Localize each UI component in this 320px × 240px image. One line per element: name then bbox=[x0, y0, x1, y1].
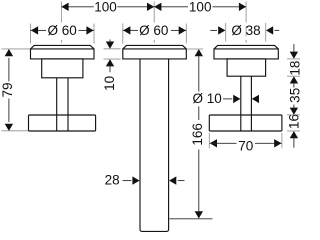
left escutcheon bbox=[31, 45, 95, 59]
dimension 10 ticks (middle escutcheon height) bbox=[104, 49, 121, 59]
left handle bar bbox=[29, 115, 96, 131]
left handle skirt bbox=[42, 59, 83, 78]
dimension 16 bbox=[287, 114, 302, 148]
dimension Ø60 left extension lines bbox=[31, 24, 95, 44]
dimension 166 top tick bbox=[187, 48, 203, 50]
dimension 166 bottom reference line bbox=[169, 218, 212, 220]
svg-text:10: 10 bbox=[102, 76, 117, 91]
right escutcheon bbox=[214, 45, 278, 59]
dimension Ø60 middle bbox=[123, 23, 187, 38]
svg-text:166: 166 bbox=[190, 123, 205, 146]
svg-text:35: 35 bbox=[287, 88, 300, 103]
dimension 166 bbox=[190, 49, 205, 218]
dimension 79 bbox=[0, 49, 15, 131]
dimension 28 bbox=[105, 173, 185, 188]
svg-text:16: 16 bbox=[287, 114, 301, 129]
dimension Ø60 left bbox=[31, 23, 95, 38]
dimension 10 arrows and label bbox=[102, 40, 117, 91]
svg-text:Ø 38: Ø 38 bbox=[231, 23, 260, 38]
dimension Ø38 bbox=[210, 23, 279, 38]
dimension 35 bbox=[287, 88, 302, 115]
dimension Ø60 middle extension lines bbox=[123, 24, 187, 44]
svg-text:18: 18 bbox=[287, 61, 300, 76]
svg-text:Ø 10: Ø 10 bbox=[193, 91, 222, 106]
centerline middle spout bbox=[153, 2, 155, 23]
right handle bar bbox=[209, 115, 282, 131]
svg-text:Ø 60: Ø 60 bbox=[48, 23, 77, 38]
right handle skirt bbox=[227, 59, 266, 76]
svg-text:100: 100 bbox=[94, 0, 117, 15]
right handle stem bbox=[241, 76, 252, 131]
dimension 70 bbox=[210, 139, 282, 154]
dimension Ø38 extension lines bbox=[226, 23, 266, 42]
dimension 70 extension lines bbox=[209, 133, 282, 148]
svg-text:100: 100 bbox=[189, 0, 212, 15]
dimension Ø10 (stem) bbox=[193, 91, 259, 106]
right chain ticks bbox=[287, 59, 300, 131]
left handle stem bbox=[57, 78, 68, 131]
dimension 100 left bbox=[61, 0, 154, 15]
centerline left valve bbox=[60, 2, 62, 43]
centerline right valve bbox=[245, 2, 247, 23]
spout body bbox=[140, 59, 169, 232]
svg-text:28: 28 bbox=[105, 173, 120, 188]
svg-text:79: 79 bbox=[0, 82, 15, 97]
svg-text:Ø 60: Ø 60 bbox=[139, 23, 168, 38]
middle escutcheon bbox=[123, 45, 187, 59]
dimension 79 reference ticks bbox=[2, 49, 31, 131]
dimension 100 right bbox=[154, 0, 246, 15]
svg-text:70: 70 bbox=[238, 139, 253, 154]
dimension 18 bbox=[287, 44, 302, 88]
